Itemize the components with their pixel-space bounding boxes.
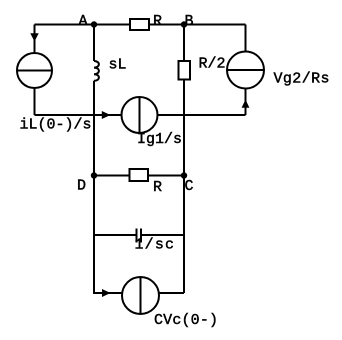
svg-text:R: R <box>153 13 162 30</box>
svg-text:B: B <box>185 13 194 30</box>
svg-text:D: D <box>77 178 86 195</box>
svg-text:1/sc: 1/sc <box>135 237 175 254</box>
svg-text:C: C <box>185 178 194 195</box>
svg-text:CVc(0-): CVc(0-) <box>154 312 218 329</box>
svg-text:sL: sL <box>109 57 127 74</box>
svg-text:iL(0-)/s: iL(0-)/s <box>20 117 92 134</box>
svg-text:Vg2/Rs: Vg2/Rs <box>274 71 330 88</box>
svg-text:R/2: R/2 <box>199 56 226 73</box>
svg-text:R: R <box>153 179 162 196</box>
svg-text:A: A <box>79 13 88 30</box>
svg-text:Ig1/s: Ig1/s <box>137 131 182 148</box>
